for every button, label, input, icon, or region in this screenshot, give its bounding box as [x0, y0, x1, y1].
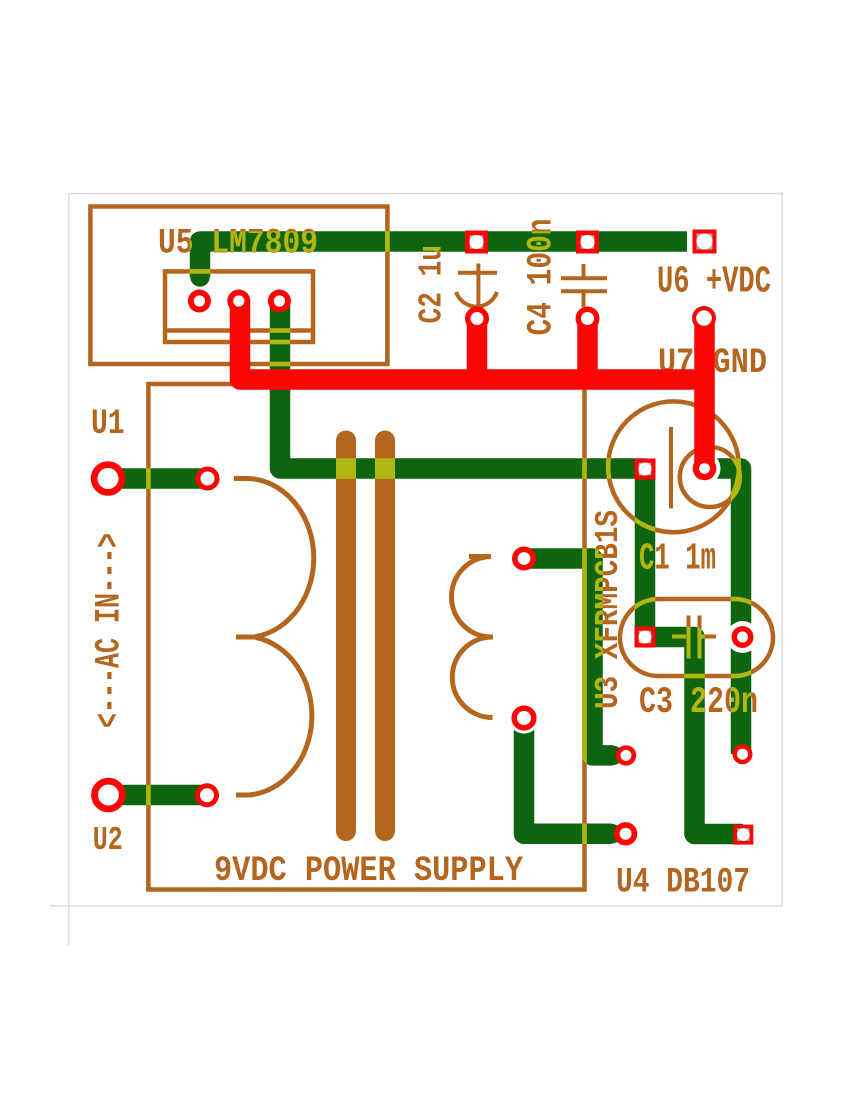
- pad U6: [692, 306, 716, 330]
- square pad U4 bottom right: [733, 825, 753, 845]
- wire red C4 pad to bus: [577, 319, 598, 380]
- pad C1 plus: [693, 457, 717, 481]
- square pad C1 minus: [635, 459, 656, 480]
- square pad T1 on top trace: [465, 231, 488, 254]
- pad clearance halo C1: [689, 453, 721, 485]
- pad C3 right: [732, 626, 754, 648]
- pad U2 right: [195, 783, 219, 807]
- pad U5 pin2: [227, 290, 250, 313]
- pad A: [616, 745, 636, 765]
- pad U5 pin1: [188, 290, 211, 313]
- pad C2 bottom: [465, 307, 489, 331]
- square pad C3 left: [635, 627, 656, 648]
- silkscreen over green (olive blend): [90, 207, 774, 903]
- pad B: [614, 822, 637, 845]
- pad C4 bottom: [576, 307, 600, 331]
- silkscreen brown: [90, 207, 774, 903]
- pad transformer secondary top: [512, 547, 536, 571]
- square pad T3 top right: [693, 230, 717, 254]
- sheet frame: [50, 194, 782, 946]
- wire red U6 pad down to C1 pad: [694, 318, 715, 469]
- pads: [91, 230, 754, 846]
- pad U2 big: [91, 778, 126, 813]
- pad clearance halo C3 right: [727, 621, 759, 653]
- square pad T2 on top trace: [576, 231, 599, 254]
- wire red U5 pin2 down along bus to U6 column: [240, 301, 705, 380]
- pad transformer secondary bottom: [511, 705, 536, 730]
- pad clearance halo transformer secondary bottom: [509, 703, 540, 734]
- bottom copper (green) layer: [108, 242, 743, 844]
- pad D: [733, 744, 753, 764]
- pad U5 pin3: [268, 290, 291, 313]
- wire red C2 pad to bus: [467, 319, 488, 380]
- pad U1 right: [196, 467, 220, 491]
- pad U1 big: [91, 461, 126, 496]
- top copper (red) layer: [240, 301, 705, 469]
